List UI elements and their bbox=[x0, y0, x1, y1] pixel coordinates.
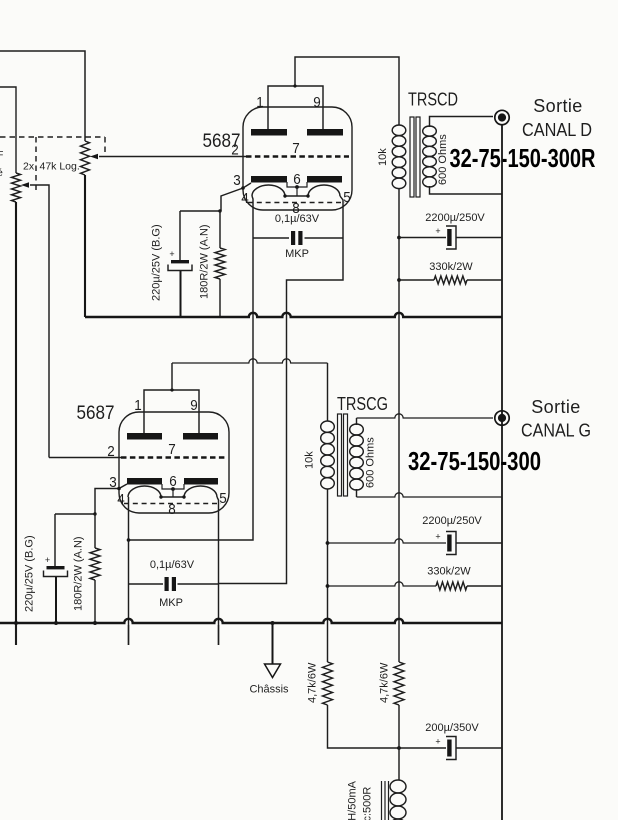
resistor R2 330k/2W bbox=[399, 279, 434, 281]
svg-text:10H/50mA: 10H/50mA bbox=[347, 780, 359, 820]
svg-text:2200µ/250V: 2200µ/250V bbox=[422, 515, 482, 527]
tube V2 heater arcs bbox=[128, 486, 217, 497]
svg-text:1: 1 bbox=[256, 95, 264, 111]
wire TRSCG secondary bottom bbox=[356, 489, 358, 497]
resistor R3 180R/2W bbox=[94, 514, 96, 548]
svg-text:0,1µ/63V: 0,1µ/63V bbox=[150, 559, 195, 571]
svg-text:+: + bbox=[169, 249, 174, 259]
ground bus channel G bbox=[0, 619, 502, 623]
svg-text:7: 7 bbox=[168, 442, 176, 458]
tube V1 anode plates bbox=[251, 129, 287, 136]
resistor R5 4,7k/6W bbox=[323, 662, 333, 705]
capacitor C5 MKP 0,1µ/63V bbox=[129, 583, 219, 585]
svg-text:47k Log.: 47k Log. bbox=[40, 161, 80, 173]
svg-text:600 Ohms: 600 Ohms bbox=[365, 437, 377, 488]
tube V1 cathode notch pin 6 bbox=[287, 182, 307, 187]
svg-text:4: 4 bbox=[117, 492, 125, 508]
TRSCD primary coil 10k bbox=[392, 125, 406, 136]
tube V2 envelope bbox=[119, 412, 229, 513]
svg-text:330k/2W: 330k/2W bbox=[429, 261, 473, 273]
svg-text:6: 6 bbox=[169, 474, 177, 490]
svg-text:3: 3 bbox=[233, 173, 241, 189]
svg-text:MKP: MKP bbox=[159, 597, 183, 609]
capacitor C1 220µ/25V bbox=[179, 211, 181, 260]
svg-text:4,7k/6W: 4,7k/6W bbox=[307, 662, 319, 703]
tube V1 top cap bar pins 1+9 bbox=[268, 86, 323, 129]
tube V2 grid dashed bbox=[121, 456, 227, 459]
svg-text:180R/2W (A.N): 180R/2W (A.N) bbox=[73, 536, 85, 611]
svg-text:9: 9 bbox=[190, 398, 198, 414]
svg-text:10k: 10k bbox=[304, 451, 316, 469]
wire heater B: V1 pin5 down jog to V2 pin5 bbox=[219, 196, 344, 584]
svg-text:Sortie: Sortie bbox=[533, 96, 582, 116]
potentiometer P2 (canal G) 47k bbox=[12, 173, 50, 458]
tube V2 heater dashed bbox=[124, 503, 221, 505]
svg-text:+: + bbox=[435, 532, 440, 542]
resistor R6 4,7k/6W bbox=[394, 662, 404, 705]
svg-text:+: + bbox=[45, 555, 50, 565]
wire pot P1 bottom to ground bus bbox=[84, 175, 86, 317]
tube V1 grid dashed bbox=[246, 155, 349, 158]
wire B+ line bbox=[328, 705, 503, 748]
svg-text:Sortie: Sortie bbox=[531, 397, 580, 417]
wire choke feed bbox=[398, 705, 400, 780]
TRSCD secondary coil 600 Ohms bbox=[423, 126, 437, 136]
svg-text:32-75-150-300R: 32-75-150-300R bbox=[450, 143, 596, 173]
potentiometer P1 (canal D) 47k bbox=[81, 141, 247, 175]
svg-text:220µ/25V (B.G): 220µ/25V (B.G) bbox=[151, 224, 163, 301]
svg-text:180R/2W (A.N): 180R/2W (A.N) bbox=[199, 224, 211, 299]
svg-text:6: 6 bbox=[293, 172, 301, 188]
ganged-pot dashed link bbox=[0, 137, 105, 190]
tube V1 cathode bars bbox=[251, 176, 287, 183]
wire TRSCD primary bottom B+ rail bbox=[398, 189, 400, 662]
tube V1 envelope bbox=[243, 107, 352, 210]
svg-text:+: + bbox=[435, 226, 440, 236]
svg-text:2: 2 bbox=[107, 444, 115, 460]
svg-text:5: 5 bbox=[343, 190, 351, 206]
tube V2 cathode bars bbox=[127, 478, 162, 485]
tube V2 cathode notch pin 6 bbox=[162, 484, 184, 489]
svg-text:2: 2 bbox=[231, 143, 239, 159]
svg-text:CANAL D: CANAL D bbox=[522, 120, 592, 140]
tube V2 top cap bar pins 1+9 bbox=[144, 390, 199, 433]
output terminal canal D bbox=[495, 110, 509, 124]
capacitor C2 MKP 0,1µ/63V bbox=[253, 237, 343, 239]
svg-text:MKP: MKP bbox=[285, 248, 309, 260]
TRSCG core bbox=[338, 414, 342, 496]
svg-text:4,7k/6W: 4,7k/6W bbox=[379, 662, 391, 703]
resistor R1 180R/2W bbox=[219, 211, 221, 248]
svg-text:CANAL G: CANAL G bbox=[521, 421, 591, 441]
wire V2 pin4 heater down bbox=[128, 497, 130, 645]
label pot value 2x 47k Log. bbox=[23, 161, 80, 173]
svg-text:600 Ohms: 600 Ohms bbox=[437, 134, 449, 185]
svg-text:+: + bbox=[435, 737, 440, 747]
wire input canal G bbox=[0, 87, 16, 173]
svg-text:1: 1 bbox=[134, 398, 142, 414]
svg-text:220µ/25V (B.G): 220µ/25V (B.G) bbox=[24, 535, 36, 612]
wire input canal D bbox=[0, 51, 85, 141]
wire V2 pin3 cathode lead bbox=[95, 484, 127, 514]
svg-text:5687: 5687 bbox=[77, 403, 115, 424]
wire cathode tee 2 bbox=[55, 513, 95, 515]
inductor L1 choke bbox=[390, 780, 406, 793]
wire heater A: V1 pin4 down to V2 pin4 bbox=[129, 196, 254, 540]
svg-text:7: 7 bbox=[292, 141, 300, 157]
wire V1 pin3 cathode lead bbox=[221, 183, 251, 211]
svg-text:2x: 2x bbox=[23, 161, 35, 173]
svg-text:10k: 10k bbox=[377, 148, 389, 166]
wire TRSCG primary bottom B+ rail G bbox=[327, 489, 329, 662]
svg-text:TRSCG: TRSCG bbox=[337, 394, 388, 414]
capacitor C4 220µ/25V bbox=[54, 514, 56, 566]
svg-text:Rcc:500R: Rcc:500R bbox=[362, 787, 374, 820]
TRSCG primary coil 10k bbox=[321, 421, 335, 432]
tube V1 heater dashed bbox=[248, 202, 345, 204]
capacitor C3 2200µ/250V bbox=[399, 237, 502, 239]
svg-text:F: F bbox=[0, 149, 3, 161]
heater stubs below bus bbox=[16, 625, 219, 645]
capacitor C6 2200µ/250V bbox=[328, 539, 447, 543]
wire TRSCD secondary top to output terminal bbox=[430, 117, 494, 128]
wire TRSCG secondary top to terminal bbox=[356, 418, 358, 425]
svg-text:TRSCD: TRSCD bbox=[408, 90, 458, 110]
svg-text:0,1µ/63V: 0,1µ/63V bbox=[275, 213, 320, 225]
chassis ground symbol bbox=[272, 623, 274, 664]
wire V1 plate to TRSCD primary bbox=[295, 57, 399, 125]
wire V2 plate to TRSCG primary bbox=[171, 363, 173, 390]
cut-off text left edge bbox=[0, 149, 3, 179]
tube V1 heater arcs bbox=[252, 185, 340, 196]
wire pot P2 wiper to V2 grid bbox=[49, 457, 121, 459]
svg-text:é: é bbox=[0, 167, 3, 179]
wire cathode tee bbox=[180, 210, 221, 212]
svg-text:200µ/350V: 200µ/350V bbox=[425, 722, 479, 734]
capacitor C7 200µ/350V bbox=[446, 737, 456, 760]
svg-text:330k/2W: 330k/2W bbox=[427, 566, 471, 578]
svg-text:4: 4 bbox=[241, 191, 249, 207]
svg-text:9: 9 bbox=[313, 95, 321, 111]
wire common rail right bbox=[501, 126, 503, 820]
tube V2 anode plates bbox=[127, 433, 162, 440]
svg-text:2200µ/250V: 2200µ/250V bbox=[425, 212, 485, 224]
wire TRSCD secondary bottom bbox=[430, 186, 503, 194]
ground bus channel D bbox=[85, 313, 502, 317]
output terminal canal G bbox=[495, 411, 509, 425]
svg-text:32-75-150-300: 32-75-150-300 bbox=[408, 446, 541, 476]
svg-text:8: 8 bbox=[168, 502, 176, 518]
wire pot P2 bottom to ground bus bbox=[15, 202, 17, 645]
svg-text:5: 5 bbox=[219, 491, 227, 507]
svg-text:Châssis: Châssis bbox=[249, 684, 289, 696]
resistor R4 330k/2W bbox=[328, 582, 437, 586]
TRSCG secondary coil 600 Ohms bbox=[350, 424, 364, 435]
wire V2 pin5 heater down bbox=[217, 497, 219, 645]
TRSCD core bbox=[410, 117, 414, 197]
